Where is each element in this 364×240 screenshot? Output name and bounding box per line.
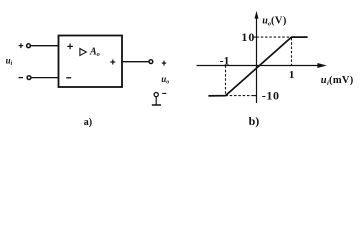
svg-text:a): a) — [84, 117, 92, 128]
svg-text:ui(mV): ui(mV) — [321, 75, 354, 87]
svg-text:10: 10 — [241, 30, 255, 44]
svg-text:-10: -10 — [262, 88, 280, 102]
svg-text:b): b) — [249, 114, 260, 128]
svg-text:-1: -1 — [220, 55, 230, 67]
svg-text:1: 1 — [289, 69, 295, 81]
svg-text:uo(V): uo(V) — [262, 16, 287, 28]
